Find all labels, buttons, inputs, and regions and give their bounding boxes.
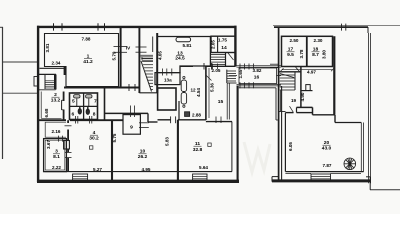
site boundary bottom right — [370, 189, 400, 191]
svg-text:19: 19 — [291, 98, 297, 103]
svg-text:18: 18 — [313, 47, 319, 53]
room 1 right wall — [120, 27, 122, 88]
courtyard under gallery — [239, 87, 276, 89]
main stairwell left wall — [138, 27, 140, 93]
wall under room1 cut — [64, 67, 66, 76]
plumbing ticks — [76, 116, 92, 124]
room 13 outline — [157, 37, 210, 73]
stairs room15 right — [227, 71, 236, 81]
room 9 box — [123, 115, 140, 135]
rooms 17-18 block — [282, 36, 333, 66]
svg-text:8.7: 8.7 — [312, 52, 319, 58]
stairwell diagonal — [141, 61, 152, 92]
svg-text:2.16: 2.16 — [52, 129, 61, 134]
chimney block — [306, 85, 310, 91]
sink 2.88 — [185, 112, 190, 117]
plumbing ticks mid — [130, 106, 132, 118]
radiator column — [183, 76, 185, 78]
stairs under room14 — [211, 55, 226, 65]
outer bottom wall — [37, 180, 239, 183]
svg-text:5.36: 5.36 — [210, 83, 215, 92]
room 11 top wall — [178, 119, 206, 121]
svg-text:2.05: 2.05 — [211, 40, 216, 49]
shaft wall — [333, 36, 335, 114]
svg-text:8: 8 — [93, 112, 96, 118]
corridor bottom wall — [39, 119, 66, 121]
door ticks room9 — [139, 122, 149, 124]
svg-text:7.87: 7.87 — [323, 163, 332, 168]
stair right wall — [55, 74, 57, 89]
window top wall 2 — [97, 23, 99, 30]
svg-text:7.88: 7.88 — [82, 37, 91, 42]
svg-text:9: 9 — [130, 125, 133, 131]
svg-text:5.81: 5.81 — [183, 43, 192, 48]
svg-text:3.82: 3.82 — [253, 68, 262, 73]
svg-text:1.75: 1.75 — [218, 37, 227, 42]
wc divider vertical — [83, 93, 85, 120]
site line lower horizontal — [2, 92, 38, 94]
room3 top-right jog — [64, 141, 70, 150]
room 14 divider — [217, 36, 219, 52]
door ticks 13a top — [158, 69, 172, 76]
faint scan watermark — [244, 142, 270, 172]
cistern room5 — [74, 95, 80, 98]
svg-text:16: 16 — [254, 75, 260, 81]
svg-text:5.79: 5.79 — [112, 51, 117, 60]
stairwell treads — [141, 59, 153, 90]
svg-text:32.8: 32.8 — [193, 147, 203, 153]
dim line 4.97 — [282, 69, 333, 71]
svg-text:2: 2 — [54, 92, 57, 98]
bay window room11 — [193, 174, 207, 181]
door swing room14 landing — [228, 53, 234, 60]
svg-text:2.05: 2.05 — [212, 68, 221, 73]
window tick top — [341, 24, 343, 31]
svg-text:3.78: 3.78 — [299, 49, 304, 58]
room4 left wall upper — [67, 120, 69, 123]
room 3 outline — [44, 139, 67, 172]
svg-text:3.67: 3.67 — [46, 140, 51, 149]
svg-text:20: 20 — [324, 140, 330, 146]
svg-text:3: 3 — [55, 149, 58, 155]
svg-text:5.27: 5.27 — [93, 167, 102, 172]
svg-text:5.75: 5.75 — [112, 133, 117, 142]
room number underlines — [52, 52, 331, 154]
room4 left wall lower — [67, 149, 69, 152]
svg-text:24.5: 24.5 — [175, 55, 185, 61]
svg-text:4.54: 4.54 — [196, 88, 201, 97]
door ticks room13 bottom — [203, 63, 205, 70]
svg-text:10: 10 — [140, 149, 146, 155]
svg-text:41.2: 41.2 — [83, 59, 93, 65]
svg-text:3.81: 3.81 — [45, 43, 50, 52]
room11 right lining — [231, 122, 233, 172]
wall step right of room9 — [147, 113, 149, 122]
stair hall top wall — [39, 73, 56, 75]
room 20 floor — [285, 171, 363, 173]
stairwell bottom — [139, 92, 157, 94]
room 1 inner outline — [45, 34, 119, 87]
svg-text:4.05: 4.05 — [158, 51, 163, 60]
door tick room4 — [65, 125, 72, 127]
bottom wall — [272, 179, 370, 182]
room10-11 divider wall — [177, 120, 179, 181]
room 20 stepped top — [297, 106, 313, 108]
svg-text:2.22: 2.22 — [52, 165, 61, 170]
site line left vertical — [2, 27, 4, 159]
svg-text:6.68: 6.68 — [44, 108, 49, 117]
room 1 bottom wall extension — [64, 87, 140, 89]
door ticks room3 — [65, 152, 72, 154]
square shaft room — [158, 88, 176, 110]
svg-text:4: 4 — [93, 130, 96, 136]
svg-text:9.5: 9.5 — [287, 52, 294, 58]
door ticks room1 bottom — [128, 84, 130, 91]
bay window room4 — [73, 174, 88, 181]
floors — [45, 171, 233, 173]
toilet room8 — [86, 109, 89, 114]
svg-text:3.80: 3.80 — [321, 50, 326, 59]
bathtub — [176, 37, 191, 42]
wc block outer — [70, 93, 98, 120]
room4-10 divider wall — [111, 120, 113, 181]
left wall — [278, 27, 280, 181]
room 14 block — [211, 36, 235, 52]
svg-text:17: 17 — [288, 47, 294, 53]
door swing room 20 — [290, 106, 294, 112]
outer left wall — [37, 26, 39, 182]
svg-text:5.83: 5.83 — [165, 137, 170, 146]
svg-text:11: 11 — [195, 141, 200, 147]
corridor 2.16 lining — [45, 122, 66, 137]
wall segment room10 top — [158, 119, 171, 121]
cistern room7 — [86, 95, 92, 98]
stairs room 19 — [280, 71, 301, 73]
gallery door lines — [229, 75, 237, 77]
wc pipes top row — [76, 99, 78, 107]
svg-text:2.50: 2.50 — [290, 38, 299, 43]
svg-text:5: 5 — [72, 99, 75, 105]
fan symbol — [344, 158, 356, 170]
left wall inner lower — [281, 86, 283, 182]
svg-text:2.88: 2.88 — [192, 113, 201, 118]
site boundary top right — [273, 24, 400, 26]
main stairwell right wall — [156, 33, 158, 93]
room 2 right wall — [63, 92, 65, 102]
site tick top left — [0, 26, 3, 28]
svg-text:1.65: 1.65 — [238, 69, 243, 78]
svg-text:13.2: 13.2 — [51, 98, 61, 104]
window top wall 1 — [53, 23, 55, 30]
svg-text:30.2: 30.2 — [89, 136, 99, 142]
svg-text:26.2: 26.2 — [138, 154, 148, 160]
outer top wall — [37, 26, 237, 28]
room 13a box — [155, 73, 180, 85]
svg-text:8.1: 8.1 — [53, 154, 60, 160]
svg-text:2.34: 2.34 — [52, 61, 61, 66]
room 20 right walls — [360, 123, 362, 172]
outer right wall lower — [237, 86, 239, 181]
svg-text:43.0: 43.0 — [322, 146, 332, 152]
shaft IV wall — [114, 46, 128, 48]
site line upper horizontal — [2, 61, 38, 63]
right wall double — [367, 27, 369, 33]
room 15 left wall — [205, 66, 207, 120]
bottom right step — [369, 177, 371, 190]
wall right of stairs — [300, 66, 302, 107]
stairwell top landing steps — [141, 55, 154, 60]
svg-text:2.30: 2.30 — [314, 38, 323, 43]
door swing 19 — [296, 67, 300, 72]
svg-text:4.95: 4.95 — [142, 167, 151, 172]
svg-text:14: 14 — [221, 45, 227, 51]
svg-text:6: 6 — [72, 112, 75, 118]
svg-text:15: 15 — [218, 99, 224, 105]
window tick left wall — [270, 63, 279, 65]
svg-text:4.90: 4.90 — [300, 92, 305, 101]
svg-text:5.64: 5.64 — [199, 165, 208, 170]
stair left box — [45, 74, 55, 89]
GALLERY room 16 — [237, 65, 282, 67]
stair left treads — [45, 81, 55, 88]
middle wall y113 — [105, 112, 149, 114]
svg-text:4.97: 4.97 — [307, 69, 316, 74]
svg-text:6.05: 6.05 — [288, 142, 293, 151]
window ticks room11 top — [170, 116, 172, 123]
top wall — [274, 26, 368, 28]
bay window room 20 — [311, 174, 331, 181]
gallery window ticks — [240, 64, 254, 89]
svg-text:13a: 13a — [164, 78, 172, 83]
svg-text:7: 7 — [94, 98, 97, 104]
room 15 top wall — [180, 65, 193, 67]
toilet room6 — [78, 109, 81, 114]
svg-text:1: 1 — [87, 54, 90, 60]
room 20 left boundary — [285, 112, 293, 114]
wc divider horizontal — [70, 105, 98, 107]
outer right wall upper — [234, 26, 236, 67]
